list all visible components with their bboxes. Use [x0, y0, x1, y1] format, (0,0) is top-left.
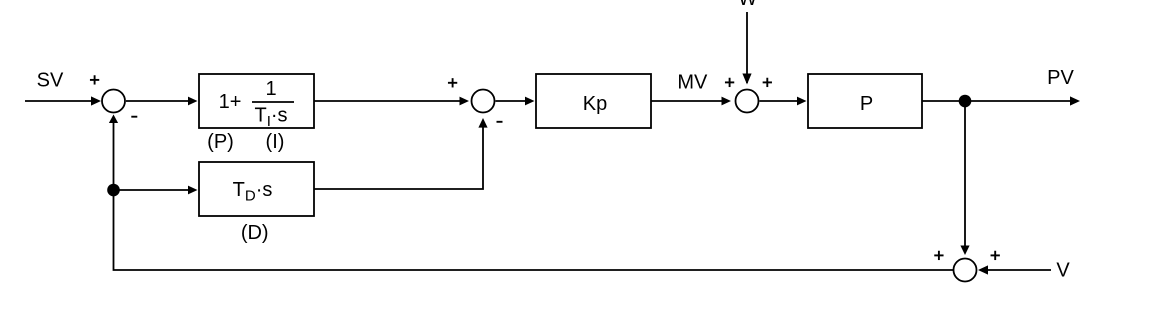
wire sum3 to block P	[760, 100, 799, 102]
svg-text:1+: 1+	[219, 91, 242, 113]
summing junction sum2 (PI - D)	[472, 90, 495, 113]
block PI: 1+1/(TI s)	[199, 74, 314, 128]
block PI fraction bar	[252, 101, 294, 103]
arrowhead into sum4 top	[960, 246, 969, 256]
block Kp	[536, 74, 651, 128]
sign plus right at sum3	[763, 78, 772, 87]
svg-text:V: V	[1056, 260, 1070, 282]
svg-text:(I): (I)	[266, 131, 285, 153]
wire feedback bottom run and riser to sum1	[114, 123, 954, 270]
sign plus left at sum4	[934, 251, 943, 260]
summing junction sum1 (SV - feedback)	[102, 90, 125, 113]
arrowhead into block P	[797, 97, 807, 106]
arrowhead W into sum3 top	[742, 74, 751, 85]
svg-text:P: P	[860, 93, 873, 115]
arrowhead into block D	[188, 186, 198, 195]
sign plus right at sum4	[991, 251, 1000, 260]
wire node to sum4	[964, 101, 966, 246]
block D: TD s	[199, 162, 314, 216]
svg-text:(P): (P)	[207, 131, 234, 153]
sign plus left at sum3	[725, 78, 734, 87]
svg-text:TI·s: TI·s	[254, 104, 287, 129]
wire PV output	[922, 100, 1071, 102]
wire MV: block Kp to sum3	[651, 100, 722, 102]
wire W input	[746, 12, 748, 83]
arrowhead into sum3 left	[722, 97, 732, 106]
arrowhead PV output	[1070, 96, 1080, 105]
svg-text:SV: SV	[37, 70, 64, 92]
svg-text:(D): (D)	[241, 222, 269, 244]
arrowhead feedback into sum1 bottom	[109, 115, 118, 124]
wire feedback branch to block D	[114, 189, 190, 191]
svg-text:MV: MV	[677, 72, 708, 94]
wire sum1 to block PI	[126, 100, 189, 102]
svg-text:W: W	[738, 0, 757, 10]
node dot on feedback riser	[107, 184, 120, 197]
svg-text:PV: PV	[1047, 67, 1074, 89]
sign minus at sum2	[497, 121, 503, 123]
arrowhead into sum1	[91, 96, 101, 105]
wire block D output to sum2 bottom	[314, 126, 483, 189]
block P (process)	[808, 74, 922, 128]
wire V input	[988, 269, 1051, 271]
arrowhead into block Kp	[525, 97, 535, 106]
arrowhead into block PI	[188, 97, 198, 106]
svg-text:Kp: Kp	[583, 93, 607, 115]
summing junction sum3 (MV + W)	[736, 90, 759, 113]
sign plus at sum2	[448, 78, 457, 87]
wire sum2 to block Kp	[496, 100, 528, 102]
arrowhead V into sum4 right	[978, 265, 988, 274]
wire block PI to sum2	[314, 100, 461, 102]
sign minus at sum1	[131, 116, 137, 118]
svg-text:1: 1	[265, 78, 276, 100]
summing junction sum4 (PV + V)	[954, 259, 977, 282]
arrowhead D output into sum2 bottom	[478, 118, 487, 128]
wire SV input	[25, 100, 92, 102]
node dot on PV line	[959, 95, 972, 108]
sign plus at sum1	[90, 75, 99, 84]
arrowhead into sum2 left	[460, 97, 470, 106]
